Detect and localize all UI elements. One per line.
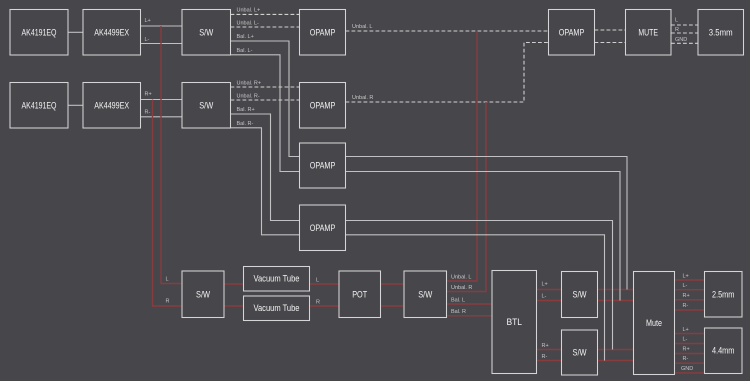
wire OPAMP4 out+ to Mute R+ (346, 221, 613, 350)
svg-text:L-: L- (145, 37, 150, 43)
svg-text:AK4499EX: AK4499EX (94, 28, 129, 38)
svg-text:Unbal. L: Unbal. L (451, 275, 472, 281)
svg-text:OPAMP: OPAMP (310, 28, 336, 38)
switch S/W2 (tube output) (404, 271, 447, 318)
wire Unbal. L riser to top OPAMP (447, 31, 478, 281)
wire S/W to Vacuum Tube L (224, 283, 244, 285)
svg-text:OPAMP: OPAMP (310, 161, 336, 171)
amplifier BTL (492, 271, 537, 374)
wire AK4191EQ(R) to AK4499EX(R) (68, 104, 83, 106)
switch S/W4 (R) (562, 330, 598, 375)
svg-text:Unbal. R+: Unbal. R+ (237, 80, 262, 86)
wire L- (141, 43, 183, 45)
wire Unbal. L- (dashed) (231, 26, 300, 28)
svg-text:R-: R- (683, 303, 689, 309)
svg-text:AK4499EX: AK4499EX (94, 101, 129, 111)
wire Unbal. R (dashed) OPAMP up to OPAMP (346, 43, 549, 103)
wire OPAMP3 out+ to Mute L+ (346, 157, 628, 290)
svg-text:Unbal. L: Unbal. L (352, 24, 373, 30)
svg-text:Bal. R-: Bal. R- (237, 121, 254, 127)
wire Mute to 4.4mm L- (675, 343, 705, 345)
svg-text:L+: L+ (683, 327, 689, 333)
wire OPAMP4 out- to Mute R- (346, 235, 605, 361)
svg-text:L+: L+ (542, 282, 548, 288)
DAC AK4499EX (R) (83, 83, 141, 129)
svg-text:Bal. R+: Bal. R+ (237, 107, 255, 113)
svg-text:3.5mm: 3.5mm (709, 28, 733, 38)
svg-text:Vacuum Tube: Vacuum Tube (254, 303, 300, 313)
switch S/W (R) (182, 83, 231, 129)
wire Vacuum Tube R to POT (310, 305, 340, 307)
wire Mute to 2.5mm L- (675, 289, 705, 291)
svg-text:GND: GND (675, 37, 687, 43)
svg-text:Bal. L+: Bal. L+ (237, 34, 254, 40)
op-amp OPAMP U4 (Bal R) (300, 205, 346, 251)
wire Vacuum Tube L to POT (310, 283, 340, 285)
wire L+ (141, 25, 183, 27)
wire Bal. R to BTL (447, 315, 493, 317)
MUTE block (top) (626, 10, 672, 56)
wire Unbal. R- (dashed) (231, 99, 300, 101)
POT volume (339, 271, 381, 318)
svg-text:OPAMP: OPAMP (310, 101, 336, 111)
svg-text:AK4191EQ: AK4191EQ (22, 101, 57, 111)
wire S/W4 to Mute R+ (598, 349, 634, 351)
svg-text:S/W: S/W (418, 289, 432, 299)
svg-text:R+: R+ (542, 343, 549, 349)
wire Unbal. L (dashed) OPAMP to OPAMP (346, 30, 549, 32)
wire MUTE to 3.5mm L (dashed) (671, 24, 698, 26)
svg-text:R+: R+ (145, 92, 152, 98)
wire L tap from L+ down to bottom S/W (161, 26, 182, 284)
wire R tap from R+ down to bottom S/W (153, 100, 183, 307)
wire Unbal. L+ (dashed) (231, 13, 300, 15)
svg-text:Mute: Mute (646, 318, 662, 328)
wire BTL to S/W3 L+ (537, 289, 562, 291)
svg-text:S/W: S/W (199, 101, 213, 111)
wire POT to S/W2 L (381, 283, 405, 285)
svg-text:GND: GND (681, 366, 693, 372)
wire Bal. L- to OPAMP3 (231, 55, 300, 172)
svg-text:Unbal. L+: Unbal. L+ (237, 8, 261, 14)
svg-text:R-: R- (542, 354, 548, 360)
DAC AK4191EQ (L) (10, 10, 68, 56)
wire OPAMP to MUTE line1 (dashed) (595, 29, 626, 31)
wire S/W to Vacuum Tube R (224, 305, 244, 307)
svg-text:R-: R- (683, 356, 689, 362)
wire R- (141, 116, 183, 118)
wire S/W4 to Mute R- (598, 360, 634, 362)
svg-text:R+: R+ (683, 346, 690, 352)
wire Mute to 2.5mm R- (675, 309, 705, 311)
Vacuum Tube L (244, 267, 310, 292)
DAC AK4499EX (L) (83, 10, 141, 56)
svg-text:L: L (316, 277, 319, 283)
wire Unbal. R+ (dashed) (231, 86, 300, 88)
op-amp OPAMP U2 (Unbal R) (300, 83, 346, 129)
wire MUTE to 3.5mm GND (dashed) (671, 42, 698, 44)
wire BTL to S/W4 R- (537, 360, 562, 362)
wire OPAMP3 out- to Mute L- (346, 172, 621, 301)
svg-text:AK4191EQ: AK4191EQ (22, 28, 57, 38)
connector 4.4mm jack (705, 328, 743, 374)
wire Bal. R+ to OPAMP4 (231, 114, 300, 221)
svg-text:OPAMP: OPAMP (310, 223, 336, 233)
op-amp OPAMP U1 (Unbal L) (300, 10, 346, 56)
svg-text:2.5mm: 2.5mm (712, 289, 734, 299)
svg-text:S/W: S/W (573, 290, 587, 300)
svg-text:Vacuum Tube: Vacuum Tube (254, 274, 300, 284)
svg-text:Bal. R: Bal. R (451, 309, 466, 315)
wire S/W3 to Mute L+ (598, 289, 634, 291)
wire AK4191EQ(L) to AK4499EX(L) (68, 31, 83, 33)
wire Mute to 4.4mm R- (675, 362, 705, 364)
DAC AK4191EQ (R) (10, 83, 68, 129)
wire BTL to S/W3 L- (537, 300, 562, 302)
svg-text:R+: R+ (683, 293, 690, 299)
svg-text:S/W: S/W (573, 348, 587, 358)
svg-text:Unbal. R-: Unbal. R- (237, 93, 260, 99)
connector 2.5mm jack (705, 272, 743, 318)
svg-text:POT: POT (352, 289, 367, 299)
svg-text:OPAMP: OPAMP (559, 28, 585, 38)
svg-text:L: L (675, 17, 678, 23)
svg-text:4.4mm: 4.4mm (712, 346, 734, 356)
wire Mute to 4.4mm GND (675, 372, 705, 374)
svg-text:BTL: BTL (506, 317, 522, 327)
svg-text:L-: L- (542, 294, 547, 300)
wire Mute to 2.5mm R+ (675, 299, 705, 301)
wire Mute to 4.4mm R+ (675, 353, 705, 355)
wire POT to S/W2 R (381, 305, 405, 307)
svg-text:Bal. L-: Bal. L- (237, 48, 253, 54)
Vacuum Tube R (244, 296, 310, 321)
svg-text:L-: L- (683, 283, 688, 289)
svg-text:S/W: S/W (199, 28, 213, 38)
switch S/W (L) (182, 10, 231, 56)
svg-text:Unbal. L-: Unbal. L- (237, 20, 259, 26)
wire BTL to S/W4 R+ (537, 349, 562, 351)
op-amp OPAMP U3 (Bal L) (300, 143, 346, 188)
svg-text:MUTE: MUTE (638, 28, 658, 38)
wire Bal. L+ to OPAMP3 (231, 41, 300, 157)
op-amp OPAMP U5 (headphone) (549, 10, 595, 56)
wire MUTE to 3.5mm R (dashed) (671, 32, 698, 34)
svg-text:Bal. L: Bal. L (451, 297, 465, 303)
svg-text:R: R (675, 27, 679, 33)
svg-text:S/W: S/W (196, 289, 210, 299)
wire Mute to 4.4mm L+ (675, 333, 705, 335)
svg-text:L+: L+ (145, 18, 151, 24)
connector 3.5mm jack (698, 10, 744, 56)
wire R+ (141, 99, 183, 101)
switch S/W (tube input) (182, 271, 224, 318)
wire S/W3 to Mute L- (598, 300, 634, 302)
Mute block (bottom) (634, 272, 675, 375)
svg-text:R: R (316, 299, 320, 305)
svg-text:L-: L- (683, 337, 688, 343)
svg-text:L: L (166, 276, 169, 282)
switch S/W3 (L) (562, 272, 598, 318)
wire Bal. L to BTL (447, 303, 493, 305)
wire Unbal. R riser to top OPAMP (447, 102, 487, 292)
svg-text:R: R (166, 299, 170, 305)
svg-text:R-: R- (145, 110, 151, 116)
wire Mute to 2.5mm L+ (675, 279, 705, 281)
wire OPAMP to MUTE line2 (dashed) (595, 42, 626, 44)
svg-text:Unbal. R: Unbal. R (451, 285, 472, 291)
svg-text:Unbal. R: Unbal. R (352, 95, 373, 101)
svg-text:L+: L+ (683, 273, 689, 279)
wire Bal. R- to OPAMP4 (231, 128, 300, 235)
